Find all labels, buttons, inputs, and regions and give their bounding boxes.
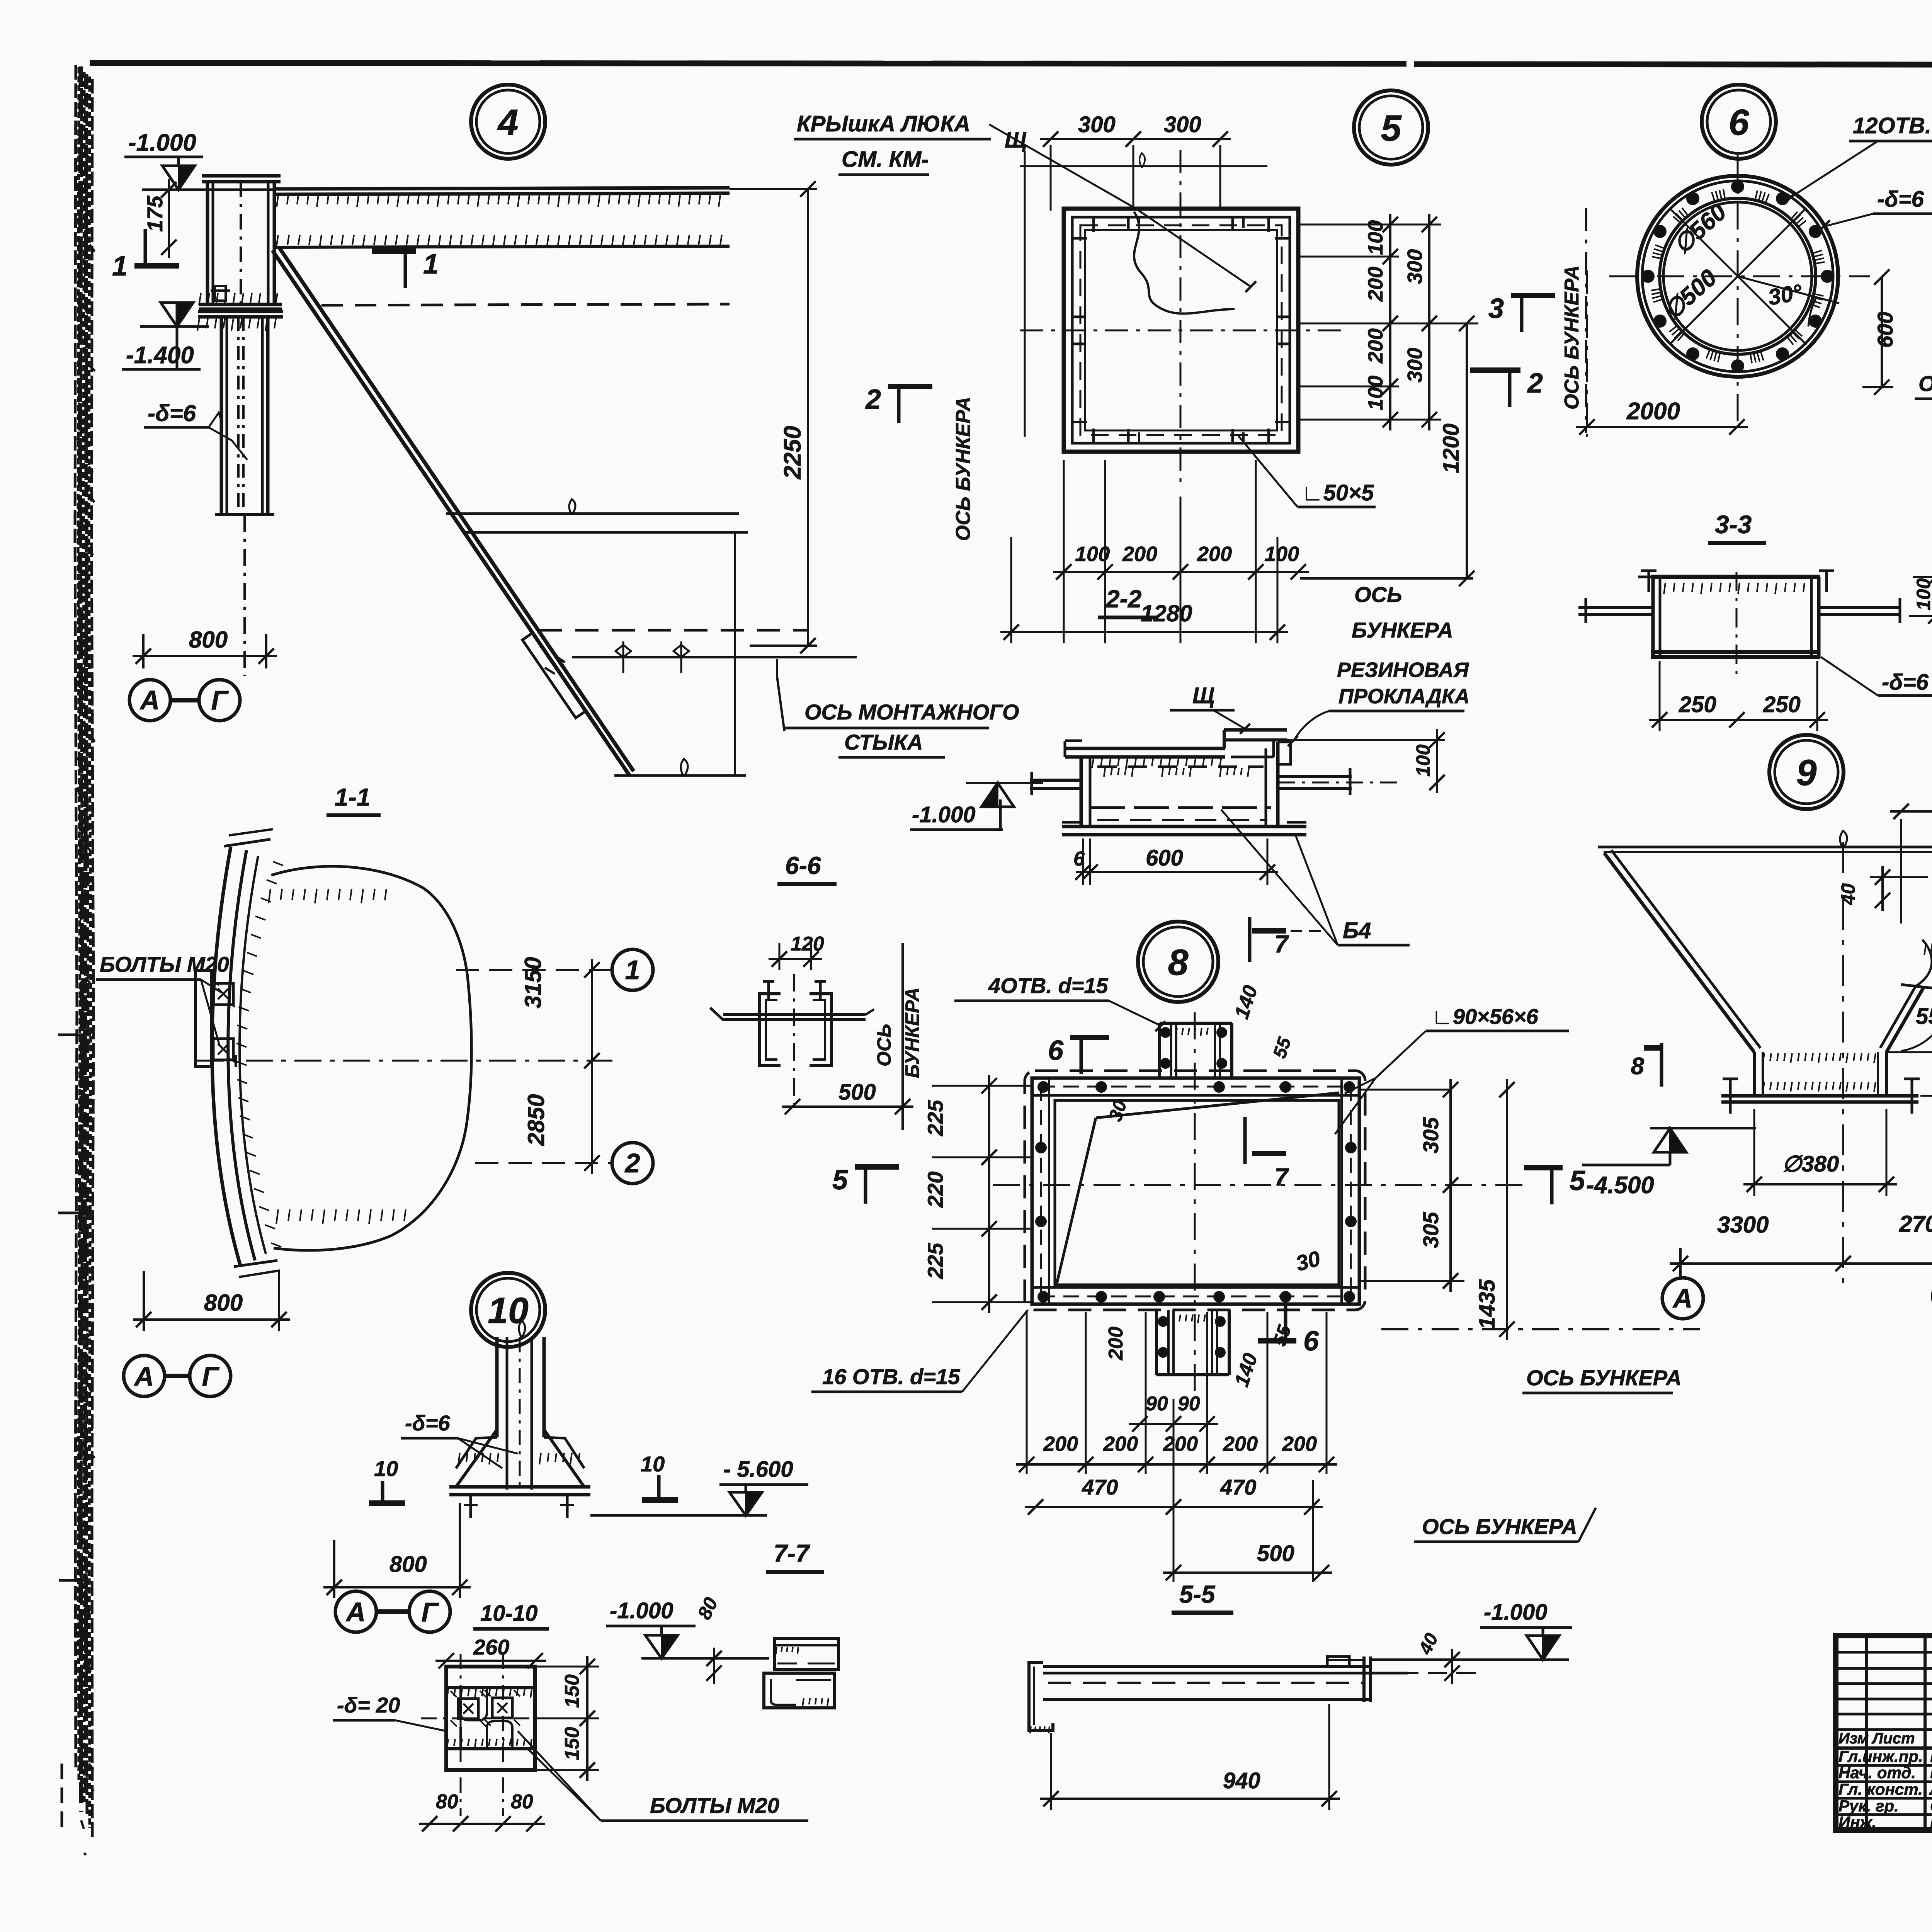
svg-text:10: 10 bbox=[374, 1456, 398, 1481]
svg-text:2: 2 bbox=[865, 384, 881, 415]
section 1-1 patch hatch bottom bbox=[276, 1209, 278, 1224]
detail 4 bolt line at splice bbox=[572, 656, 857, 658]
detail 9 hopper right slope bbox=[1886, 853, 1932, 1052]
svg-text:-δ=6: -δ=6 bbox=[1877, 187, 1924, 212]
svg-text:А: А bbox=[345, 1597, 366, 1627]
section 2-2 right flange bbox=[1278, 775, 1352, 778]
svg-text:40: 40 bbox=[1415, 1630, 1442, 1658]
detail 10 base plate bbox=[449, 1485, 590, 1489]
svg-text:Рук. гр.: Рук. гр. bbox=[1838, 1797, 1899, 1815]
detail 9 bottom flange bbox=[1721, 1094, 1918, 1098]
svg-text:Г: Г bbox=[211, 685, 229, 715]
svg-text:А: А bbox=[139, 685, 160, 715]
left margin tick marks bbox=[58, 1034, 91, 1036]
svg-text:140: 140 bbox=[1230, 983, 1262, 1022]
svg-text:3150: 3150 bbox=[520, 957, 546, 1009]
detail 5 outer square bbox=[1064, 209, 1298, 452]
svg-text:2000: 2000 bbox=[1626, 398, 1680, 425]
svg-text:КРЫшкА ЛЮКА: КРЫшкА ЛЮКА bbox=[797, 111, 970, 136]
section 2-2 top flange bbox=[1065, 747, 1225, 750]
svg-text:8: 8 bbox=[1168, 942, 1189, 983]
svg-text:30°: 30° bbox=[1766, 279, 1804, 310]
svg-text:-4.500: -4.500 bbox=[1586, 1172, 1654, 1199]
detail 8 section flag 7 inner bbox=[1243, 1117, 1247, 1164]
detail 5 bottom dimension 1280 bbox=[1000, 631, 1288, 633]
detail 8 right dimension 1435 bbox=[1506, 1079, 1508, 1340]
section 10-10 anchor bolts with crosses bbox=[458, 1699, 478, 1719]
svg-text:100: 100 bbox=[1364, 376, 1387, 410]
svg-text:300: 300 bbox=[1164, 112, 1201, 137]
detail 4 beam left extension line bbox=[153, 189, 276, 191]
svg-text:200: 200 bbox=[1122, 543, 1157, 566]
svg-text:Лист: Лист bbox=[1871, 1730, 1915, 1747]
section 6-6 dimension 500 bbox=[782, 1105, 913, 1108]
section 5-5 long strip plate bbox=[1043, 1665, 1370, 1668]
detail 9 section flag 8 left bbox=[1660, 1043, 1663, 1087]
section 10-10 channel webs bbox=[461, 1688, 487, 1720]
title block outer frame bbox=[1836, 1636, 1932, 1830]
detail 4 beam lower chord bbox=[276, 246, 730, 247]
detail 8 top stub flange bbox=[1160, 1022, 1232, 1025]
svg-text:100: 100 bbox=[1412, 744, 1434, 777]
svg-text:200: 200 bbox=[1163, 1432, 1198, 1456]
detail 4 lower chord line with break bbox=[614, 774, 746, 777]
svg-text:-1.000: -1.000 bbox=[128, 129, 196, 156]
svg-text:225: 225 bbox=[923, 1100, 947, 1136]
svg-text:5: 5 bbox=[1381, 108, 1402, 149]
detail 8 dim 470 470 bbox=[1025, 1506, 1323, 1508]
detail 8 dim 500 bbox=[1163, 1571, 1332, 1574]
svg-text:600: 600 bbox=[1873, 312, 1897, 348]
svg-text:БОЛТЫ М20: БОЛТЫ М20 bbox=[650, 1793, 779, 1818]
svg-text:305: 305 bbox=[1418, 1117, 1443, 1153]
detail 4 hidden dashed line below beam bbox=[321, 304, 730, 305]
detail 8 bolt dots right rail bbox=[1346, 1143, 1356, 1153]
section 6-6 center line bbox=[793, 974, 795, 1109]
svg-text:ОСЬ БУНКЕРА: ОСЬ БУНКЕРА bbox=[1561, 265, 1583, 410]
section 5-5 dimension 40 bbox=[1451, 1649, 1453, 1684]
detail 6 bolt holes 12x bbox=[1821, 270, 1833, 282]
detail 9 pipe branch cone bbox=[1901, 927, 1932, 992]
detail 8 chute slant left line bbox=[1056, 1118, 1096, 1287]
svg-text:1: 1 bbox=[112, 251, 128, 282]
svg-text:ОСЬ БУНКЕРА: ОСЬ БУНКЕРА bbox=[1422, 1514, 1577, 1539]
detail 4 dimension 175 bbox=[168, 179, 170, 258]
detail 6 view badge bbox=[1702, 85, 1776, 159]
section 3-3 tub body bbox=[1651, 575, 1820, 579]
svg-text:-δ=6: -δ=6 bbox=[148, 400, 196, 426]
svg-text:80: 80 bbox=[511, 1791, 533, 1813]
detail 5 section flag 2 left bbox=[888, 384, 932, 389]
detail 8 axis line right bbox=[1381, 1328, 1700, 1330]
detail 9 hopper top edge bbox=[1598, 846, 1932, 849]
section flag 5 right of detail 8 bbox=[1524, 1165, 1563, 1170]
detail 5 right dim chain 100 200 200 100 bbox=[1389, 214, 1391, 430]
section 2-2 lid assembly bbox=[1224, 728, 1287, 732]
section 1-1 patch hatch top bbox=[269, 889, 270, 903]
detail 5 top dimension 300 300 bbox=[1040, 138, 1231, 140]
svg-text:30: 30 bbox=[1293, 1246, 1323, 1276]
section 7-7 lower channel piece bbox=[764, 1673, 835, 1708]
svg-text:БУНКЕРА: БУНКЕРА bbox=[901, 987, 923, 1078]
detail 4 mid horizontal member lines bbox=[446, 512, 739, 515]
svg-text:16 ОТВ. d=15: 16 ОТВ. d=15 bbox=[822, 1364, 960, 1389]
section 1-1 shell hatch ticks bbox=[273, 862, 283, 866]
section 1-1 axis leaders bbox=[456, 969, 611, 971]
detail 10 view badge bbox=[471, 1273, 545, 1347]
svg-text:Гл. конст.: Гл. конст. bbox=[1838, 1780, 1923, 1798]
detail 8 bolt dots top rail bbox=[1038, 1082, 1048, 1092]
section 2-2 dimension 6 600 bbox=[1076, 871, 1278, 873]
svg-text:7: 7 bbox=[1274, 1163, 1289, 1191]
detail 8 section flag 7 top bbox=[1248, 917, 1252, 962]
section 2-2 gasket step right bbox=[1278, 742, 1291, 764]
svg-text:200: 200 bbox=[1223, 1432, 1258, 1456]
svg-text:55°: 55° bbox=[1916, 1004, 1932, 1029]
svg-text:4: 4 bbox=[497, 102, 519, 143]
detail 4 section flag 1 left bbox=[134, 263, 179, 269]
svg-text:200: 200 bbox=[1197, 543, 1232, 566]
section 7-7 dimension 80 bbox=[713, 1648, 715, 1684]
detail 5 view badge bbox=[1354, 90, 1428, 165]
svg-text:1-1: 1-1 bbox=[335, 783, 371, 811]
svg-text:2700: 2700 bbox=[1899, 1211, 1932, 1237]
svg-text:175: 175 bbox=[143, 196, 167, 232]
detail 5 inner square bbox=[1072, 217, 1290, 443]
section 10-10 base plate plan bbox=[446, 1667, 535, 1770]
detail 8 inner dashed rails bbox=[1039, 1086, 1352, 1088]
detail 8 dim 200 x5 bbox=[1016, 1463, 1337, 1466]
sheet border frame left binding edge bbox=[75, 65, 77, 1770]
detail 6 dimension 600 bbox=[1881, 277, 1883, 387]
detail 5 centerlines bbox=[1180, 150, 1182, 490]
svg-text:Инж.: Инж. bbox=[1838, 1813, 1876, 1831]
section 10-10 centerlines bbox=[460, 1654, 462, 1816]
axis circles A-G below 1-1 bbox=[124, 1355, 165, 1396]
svg-text:250: 250 bbox=[1763, 692, 1801, 717]
svg-text:-1.000: -1.000 bbox=[1484, 1600, 1547, 1625]
detail 10 anchor bolts bbox=[469, 1495, 472, 1518]
svg-text:10-10: 10-10 bbox=[480, 1601, 537, 1626]
svg-text:Гл.инж.пр.: Гл.инж.пр. bbox=[1838, 1747, 1923, 1765]
svg-text:ОСЬ: ОСЬ bbox=[1354, 582, 1402, 607]
svg-text:200: 200 bbox=[1103, 1432, 1138, 1456]
detail 4 column base tick bbox=[215, 513, 274, 516]
svg-text:-δ=6: -δ=6 bbox=[1882, 670, 1929, 695]
detail 4 column splice plates bbox=[199, 303, 282, 306]
detail 8 bottom extension verticals bbox=[1026, 1312, 1028, 1474]
title block left column verticals bbox=[1865, 1636, 1868, 1830]
svg-text:6: 6 bbox=[1303, 1326, 1319, 1357]
svg-text:А: А bbox=[1672, 1283, 1693, 1313]
detail 8 frame outer rect bbox=[1032, 1078, 1359, 1304]
detail 4 dashed chord line bbox=[539, 629, 807, 632]
section 2-2 dimension 100 right bbox=[1287, 739, 1445, 741]
svg-text:150: 150 bbox=[561, 1727, 583, 1760]
svg-text:470: 470 bbox=[1220, 1475, 1256, 1499]
section 5-5 left hook end bbox=[1029, 1663, 1053, 1731]
detail 6 dimension 2000 bbox=[1576, 426, 1748, 428]
detail 9 view badge bbox=[1769, 735, 1844, 809]
section 6-6 top bolts bbox=[767, 981, 770, 999]
section 3-3 left flange bbox=[1578, 606, 1653, 609]
section 3-3 dimension 100 bbox=[1913, 576, 1932, 578]
section 6-6 right channel bbox=[810, 994, 832, 1065]
detail 4 column bolt detail bbox=[215, 286, 226, 301]
detail 8 chute slant top line bbox=[1096, 1093, 1339, 1118]
svg-text:9: 9 bbox=[1796, 752, 1817, 793]
svg-text:800: 800 bbox=[389, 1552, 427, 1577]
section 3-3 centerline bbox=[1736, 572, 1738, 674]
axis circle A below hopper bbox=[1662, 1278, 1703, 1319]
detail 8 right extension lines bbox=[1359, 1089, 1451, 1091]
detail 9 throat walls bbox=[1753, 1052, 1756, 1096]
svg-text:55: 55 bbox=[1269, 1322, 1295, 1349]
detail 4 top beam bbox=[276, 188, 730, 189]
detail 10 column shaft bbox=[495, 1337, 499, 1437]
svg-text:Г: Г bbox=[202, 1361, 220, 1391]
svg-text:5-5: 5-5 bbox=[1179, 1580, 1216, 1608]
detail 5 bottom dim chain 100 200 200 100 bbox=[1053, 571, 1309, 573]
svg-text:ОСЬ БУНКЕРА: ОСЬ БУНКЕРА bbox=[1918, 371, 1932, 396]
svg-text:СМ. КМ-: СМ. КМ- bbox=[842, 147, 929, 172]
svg-text:300: 300 bbox=[1403, 249, 1427, 284]
detail 10 dimension 800 bbox=[323, 1586, 471, 1588]
svg-text:БУНКЕРА: БУНКЕРА bbox=[1352, 618, 1453, 642]
svg-text:ОСЬ МОНТАЖНОГО: ОСЬ МОНТАЖНОГО bbox=[804, 700, 1019, 724]
detail 8 vertical centerline bbox=[1194, 1012, 1196, 1391]
section 6-6 dimension 120 bbox=[769, 958, 822, 960]
section 1-1 dimension chain 3150 2850 bbox=[591, 959, 593, 1174]
svg-text:140: 140 bbox=[1230, 1350, 1262, 1389]
detail 5 section flag 3 right bbox=[1511, 293, 1555, 298]
detail 5 inner dashed square bbox=[1085, 230, 1277, 430]
svg-text:Щ: Щ bbox=[1192, 683, 1214, 708]
detail 8 bolt dots bottom rail bbox=[1038, 1292, 1048, 1302]
svg-text:300: 300 bbox=[1403, 348, 1427, 383]
section 2-2 walls bbox=[1080, 757, 1083, 827]
svg-text:Щ: Щ bbox=[1005, 128, 1027, 153]
section 3-3 right flange bbox=[1819, 606, 1901, 609]
detail 8 section flag 6 bottom bbox=[1258, 1338, 1296, 1344]
svg-text:6-6: 6-6 bbox=[785, 852, 821, 879]
detail 10 left gusset bbox=[456, 1430, 497, 1487]
svg-text:220: 220 bbox=[923, 1172, 947, 1208]
section 1-1 splice bolt pads bbox=[213, 983, 233, 1005]
title block upper row lines bbox=[1836, 1651, 1932, 1654]
svg-text:∟90×56×6: ∟90×56×6 bbox=[1432, 1004, 1539, 1029]
section 1-1 dimension 800 bbox=[133, 1318, 290, 1321]
svg-text:8: 8 bbox=[1631, 1053, 1645, 1080]
svg-text:1: 1 bbox=[423, 249, 439, 280]
svg-text:55: 55 bbox=[1269, 1034, 1295, 1061]
section 5-5 right extension line bbox=[1371, 1658, 1569, 1661]
svg-text:Г: Г bbox=[422, 1597, 439, 1627]
svg-text:ОСЬ БУНКЕРА: ОСЬ БУНКЕРА bbox=[952, 397, 975, 541]
svg-text:800: 800 bbox=[189, 627, 228, 653]
svg-text:6: 6 bbox=[1729, 102, 1750, 143]
detail 4 section flag 1 right bbox=[372, 248, 416, 254]
svg-text:600: 600 bbox=[1146, 845, 1183, 871]
svg-text:3300: 3300 bbox=[1717, 1212, 1769, 1238]
detail 10 right gusset bbox=[544, 1430, 584, 1487]
svg-text:200: 200 bbox=[1105, 1327, 1127, 1361]
detail 8 frame mid lines bbox=[1032, 1094, 1359, 1097]
svg-text:225: 225 bbox=[923, 1243, 947, 1279]
section 1-1 center line bbox=[197, 1060, 612, 1062]
svg-text:- 5.600: - 5.600 bbox=[723, 1457, 793, 1482]
svg-text:РЕЗИНОВАЯ: РЕЗИНОВАЯ bbox=[1337, 658, 1469, 682]
svg-text:120: 120 bbox=[791, 933, 824, 955]
detail 9 dimension 406 bbox=[1890, 810, 1932, 813]
detail 9 dimension diam 380 bbox=[1743, 1183, 1897, 1185]
detail 6 diagonals bbox=[1669, 208, 1806, 345]
detail 8 frame inner rect bbox=[1055, 1100, 1339, 1285]
svg-text:7: 7 bbox=[1274, 930, 1289, 958]
svg-text:Нутова: Нутова bbox=[1930, 1811, 1932, 1832]
svg-text:-δ=6: -δ=6 bbox=[405, 1411, 451, 1435]
svg-text:БОЛТЫ М20: БОЛТЫ М20 bbox=[100, 952, 229, 976]
detail 8 outer dashed contour bbox=[1025, 1071, 1365, 1310]
section 2-2 bottom plate bbox=[1062, 825, 1306, 828]
section 1-1 shell inner flange line bbox=[240, 856, 266, 1254]
section 1-1 curved shell band outer bbox=[212, 847, 240, 1265]
title block row lines bbox=[1836, 1764, 1932, 1767]
svg-text:3-3: 3-3 bbox=[1715, 510, 1752, 539]
svg-text:1: 1 bbox=[625, 955, 640, 985]
detail 8 bolt dots left rail bbox=[1036, 1143, 1046, 1153]
svg-text:200: 200 bbox=[1364, 267, 1387, 302]
svg-text:940: 940 bbox=[1223, 1768, 1260, 1793]
detail 6 angle 30 deg bbox=[1738, 276, 1839, 303]
svg-text:-δ= 20: -δ= 20 bbox=[337, 1693, 400, 1717]
detail 9 dimension 3300 2700 bbox=[1670, 1262, 1932, 1265]
detail 6 ring hatch marks bbox=[1815, 294, 1823, 296]
svg-text:90: 90 bbox=[1178, 1393, 1200, 1415]
svg-text:80: 80 bbox=[436, 1791, 458, 1813]
svg-text:1435: 1435 bbox=[1475, 1279, 1500, 1329]
detail 9 hopper left slope bbox=[1604, 853, 1754, 1052]
axis circles A-G below detail 10 bbox=[335, 1591, 376, 1632]
detail 5 bottom extension lines bbox=[1010, 537, 1012, 643]
svg-text:7-7: 7-7 bbox=[774, 1539, 811, 1567]
section 1-1 axis circle 2 bbox=[612, 1143, 653, 1184]
svg-text:40: 40 bbox=[1837, 883, 1859, 905]
detail 5 corner cleats bbox=[1072, 237, 1087, 240]
sheet border frame top bbox=[90, 63, 1406, 64]
section 1-1 shell end caps bbox=[224, 839, 270, 846]
svg-text:12ОТВ. d=12: 12ОТВ. d=12 bbox=[1853, 113, 1932, 138]
detail 8 bottom stub flange bbox=[1156, 1373, 1229, 1376]
detail 8 left dim chain 225 220 225 bbox=[988, 1075, 990, 1313]
svg-text:200: 200 bbox=[1364, 328, 1387, 364]
detail 8 section flag 6 top bbox=[1070, 1035, 1109, 1040]
detail 5 right dim chain 300 300 bbox=[1428, 214, 1430, 430]
svg-text:СТЫКА: СТЫКА bbox=[844, 730, 923, 754]
detail 8 right dim chain 305 305 bbox=[1449, 1079, 1452, 1292]
svg-text:5: 5 bbox=[832, 1165, 848, 1196]
svg-text:80: 80 bbox=[693, 1594, 722, 1622]
svg-text:2-2: 2-2 bbox=[1105, 585, 1142, 613]
detail 6 centerlines bbox=[1737, 155, 1739, 427]
svg-text:100: 100 bbox=[1913, 578, 1932, 611]
detail 4 diagonal splice plate bbox=[522, 633, 586, 718]
detail 8 left extension lines bbox=[932, 1085, 1032, 1087]
svg-text:ОСЬ БУНКЕРА: ОСЬ БУНКЕРА bbox=[1526, 1366, 1682, 1390]
svg-text:10: 10 bbox=[641, 1452, 665, 1476]
svg-text:1280: 1280 bbox=[1141, 600, 1192, 626]
detail 4 dimension 800 bottom bbox=[133, 655, 277, 657]
svg-text:500: 500 bbox=[838, 1080, 876, 1105]
svg-text:100: 100 bbox=[1264, 543, 1299, 566]
detail 5 right extension lines bbox=[1298, 224, 1441, 226]
svg-text:-1.000: -1.000 bbox=[912, 802, 975, 827]
detail 4 dimension 2250 bbox=[807, 189, 809, 646]
section 7-7 upper channel piece bbox=[775, 1638, 838, 1669]
svg-text:200: 200 bbox=[1282, 1432, 1317, 1456]
svg-text:470: 470 bbox=[1082, 1475, 1118, 1499]
svg-text:90: 90 bbox=[1146, 1393, 1168, 1415]
section 10-10 dim 80 80 bottom bbox=[419, 1823, 545, 1825]
axis circles A-G below detail 4 bbox=[129, 680, 170, 721]
svg-text:150: 150 bbox=[561, 1674, 583, 1708]
svg-text:300: 300 bbox=[1078, 112, 1116, 137]
section 1-1 patch blob outline bbox=[271, 866, 471, 1250]
section 6-6 bunker axis vertical bbox=[901, 943, 904, 1130]
svg-text:250: 250 bbox=[1679, 692, 1716, 717]
svg-text:10: 10 bbox=[488, 1290, 529, 1331]
section 3-3 dimension 250 250 bbox=[1649, 719, 1828, 721]
svg-text:Нач. отд.: Нач. отд. bbox=[1838, 1764, 1916, 1782]
svg-text:6: 6 bbox=[1048, 1035, 1064, 1066]
section 1-1 splice outer plate bbox=[196, 971, 212, 1066]
detail 4 column axis line bbox=[243, 515, 246, 676]
svg-text:ПРОКЛАДКА: ПРОКЛАДКА bbox=[1338, 685, 1469, 708]
svg-text:∅500: ∅500 bbox=[1659, 264, 1722, 325]
section 6-6 left channel bbox=[759, 994, 781, 1065]
section 2-2 inner dashed lines bbox=[1097, 765, 1264, 768]
section flag 5 left of detail 8 bbox=[855, 1164, 899, 1170]
detail 4 column upper shaft bbox=[202, 174, 281, 178]
svg-text:∅380: ∅380 bbox=[1782, 1151, 1839, 1177]
svg-text:∟50×5: ∟50×5 bbox=[1301, 480, 1374, 505]
svg-text:4ОТВ. d=15: 4ОТВ. d=15 bbox=[988, 973, 1109, 998]
title block header row line bbox=[1836, 1747, 1932, 1750]
detail 4 column lower shaft bbox=[220, 317, 223, 513]
svg-text:1200: 1200 bbox=[1439, 423, 1464, 473]
svg-text:500: 500 bbox=[1257, 1541, 1294, 1566]
svg-text:200: 200 bbox=[1043, 1432, 1078, 1456]
section 5-5 dimension 940 bbox=[1040, 1798, 1340, 1800]
section 5-5 right end step bbox=[1327, 1656, 1349, 1667]
section 10-10 channel flanges bbox=[446, 1686, 535, 1689]
detail 5 right dimension 1200 bbox=[1466, 323, 1468, 578]
detail 8 dim 90 90 bbox=[1129, 1423, 1218, 1425]
detail 9 vertical centerline bbox=[1842, 842, 1844, 1283]
svg-text:Б4: Б4 bbox=[1343, 918, 1371, 943]
svg-text:800: 800 bbox=[204, 1290, 243, 1316]
detail 5 leader from hatch cover label bbox=[989, 124, 1251, 287]
svg-text:2: 2 bbox=[1527, 368, 1543, 399]
svg-text:-1.400: -1.400 bbox=[126, 342, 194, 369]
section 6-6 through plate bbox=[723, 1013, 866, 1016]
section 10-10 dim chain 150 150 right bbox=[586, 1656, 588, 1781]
svg-text:А: А bbox=[134, 1361, 154, 1391]
detail 5 mid-side cleats bbox=[1127, 217, 1130, 231]
svg-text:5: 5 bbox=[1570, 1165, 1585, 1196]
detail 5 top extension line bbox=[1020, 165, 1267, 167]
detail 4 view badge bbox=[471, 85, 545, 159]
